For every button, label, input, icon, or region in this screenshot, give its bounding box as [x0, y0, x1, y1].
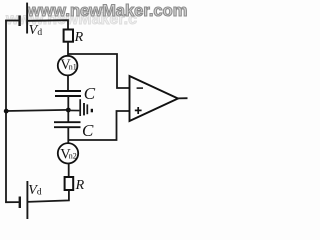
capacitor C2 [54, 121, 81, 123]
op-amp plus sign [135, 109, 142, 111]
wire output stub [178, 97, 188, 99]
svg-text:n2: n2 [69, 152, 77, 161]
wire top rail [27, 20, 68, 30]
svg-text:d: d [37, 188, 42, 198]
battery Vd1 long plate [26, 3, 28, 34]
junction dot left [4, 109, 9, 114]
ground bar 3 [86, 104, 88, 114]
wire Vn2 to R2 [68, 163, 70, 177]
svg-text:C: C [82, 121, 94, 140]
svg-text:n1: n1 [69, 63, 77, 72]
wire bottom rail left [5, 201, 19, 203]
op-amp U1 [130, 76, 179, 121]
svg-text:R: R [74, 30, 84, 45]
wire R1 to Vn1 [67, 42, 69, 57]
capacitor C1 [55, 90, 81, 92]
resistor R1 [64, 30, 73, 42]
wire minus branch [68, 54, 130, 88]
wire C1 to C2 [67, 96, 69, 122]
battery Vd2 long plate [26, 181, 28, 219]
wire mid rail [6, 110, 68, 111]
ground bar 2 [83, 103, 85, 115]
wire R2 to bottom rail [27, 190, 69, 202]
wire plus branch [68, 111, 129, 140]
svg-text:d: d [37, 28, 42, 38]
resistor R2 [65, 177, 74, 190]
ground dot [91, 109, 93, 113]
ground stub [68, 109, 79, 111]
wire Vn1 to C1 [67, 75, 69, 91]
battery Vd2 short plate [19, 197, 21, 209]
source Vn1 [58, 56, 78, 76]
svg-text:www.newMaker.com: www.newMaker.com [27, 2, 188, 20]
battery Vd1 short plate [18, 16, 20, 27]
svg-text:R: R [75, 178, 85, 193]
wire C2 to Vn2 [67, 127, 69, 143]
wire left rail [5, 20, 7, 203]
wire top rail left [5, 20, 19, 22]
op-amp minus sign [137, 87, 143, 89]
junction dot center [66, 108, 71, 113]
svg-text:C: C [84, 84, 96, 103]
ground bar 1 [79, 99, 81, 116]
source Vn2 [58, 143, 78, 163]
